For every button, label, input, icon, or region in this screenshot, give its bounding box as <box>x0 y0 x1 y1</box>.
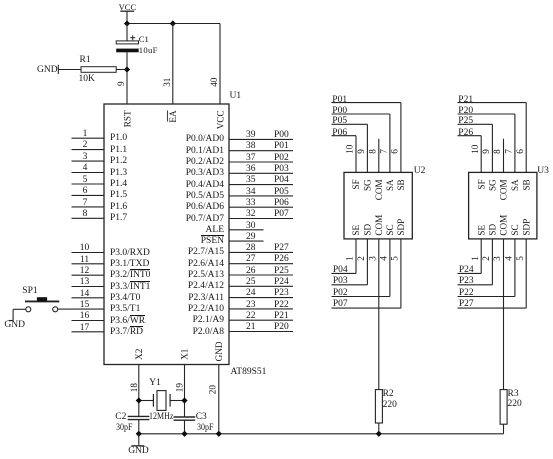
pin name P2.3/A11 <box>188 293 224 304</box>
svg-text:SD: SD <box>363 223 373 235</box>
pin number 21 <box>246 322 256 333</box>
pin 17 stub <box>72 331 105 333</box>
pin number 17 <box>78 323 91 334</box>
net label P22 <box>459 288 474 299</box>
pin name ALE <box>206 225 224 236</box>
pin name P2.6/A14 <box>188 259 224 270</box>
pin name P1.2 <box>110 156 127 167</box>
pin name P1.5 <box>110 190 127 201</box>
capacitor C2 <box>128 415 150 417</box>
pin number 15 <box>78 300 91 311</box>
svg-text:6: 6 <box>515 149 525 154</box>
pin number 10 <box>78 243 91 254</box>
pin 2 stub <box>72 149 105 151</box>
svg-text:RST: RST <box>122 110 132 127</box>
wire SP1 right to pin 15 <box>58 308 72 310</box>
pin name P3.1/TXD <box>110 259 149 270</box>
svg-text:10: 10 <box>470 144 480 154</box>
pin name PSEN <box>201 236 224 247</box>
pin number 30 <box>246 221 256 232</box>
wire U2 COM to resistor <box>378 239 380 390</box>
pin number 1 <box>81 129 90 140</box>
pin 39 stub <box>229 138 293 140</box>
net label P20 <box>274 322 289 333</box>
pin number 14 <box>78 289 91 300</box>
pin 13 stub <box>72 286 105 288</box>
pin 21 stub <box>229 331 293 333</box>
net label P07 <box>333 299 348 310</box>
label U1 <box>230 91 242 102</box>
pin name P0.5/AD5 <box>186 191 224 202</box>
svg-text:SA: SA <box>385 179 395 191</box>
switch SP1 actuator bar <box>25 300 59 302</box>
pin 38 stub <box>229 150 293 152</box>
svg-text:SA: SA <box>510 179 520 191</box>
wire net P07 to U2 <box>400 239 402 308</box>
svg-text:SF: SF <box>351 179 361 189</box>
value 10K <box>79 74 95 85</box>
net label P23 <box>274 288 289 299</box>
power symbol VCC <box>120 10 134 12</box>
svg-text:COM: COM <box>374 179 384 200</box>
net label P27 <box>274 243 289 254</box>
svg-text:3: 3 <box>492 256 502 261</box>
wire GND pin 20 <box>218 365 220 434</box>
value 220 at R2 <box>383 400 397 411</box>
svg-text:SC: SC <box>510 224 520 235</box>
pin number 25 <box>246 277 256 288</box>
net label P00 <box>274 130 289 141</box>
pin 36 stub <box>229 172 293 174</box>
pin 15 stub <box>72 308 105 310</box>
label U3 <box>537 166 549 177</box>
label Y1 <box>149 378 161 389</box>
svg-text:SC: SC <box>385 224 395 235</box>
net label P06 <box>274 198 289 209</box>
svg-text:18: 18 <box>129 383 139 393</box>
net label P02 <box>333 288 348 299</box>
net label P03 <box>274 164 289 175</box>
svg-text:9: 9 <box>116 81 126 86</box>
pin name P3.4/T0 <box>110 293 140 304</box>
net label P04 <box>333 265 348 276</box>
label R2 <box>383 389 394 400</box>
wire net P06 to U2 <box>332 135 357 137</box>
pin 25 stub <box>229 285 293 287</box>
7-segment display U2 body <box>344 172 412 239</box>
svg-text:4: 4 <box>379 256 389 261</box>
pin name P3.2/INT0 <box>110 270 150 281</box>
pin name P2.0/A8 <box>193 327 224 338</box>
resistor R2 <box>375 390 382 423</box>
wire VCC pin 40 <box>219 24 221 105</box>
wire U3 COM to resistor <box>503 239 505 390</box>
svg-text:8: 8 <box>368 149 378 154</box>
wire SP1 left to GND <box>13 308 26 310</box>
resistor R1 <box>81 67 116 73</box>
svg-text:4: 4 <box>504 256 514 261</box>
pin 28 stub <box>229 251 293 253</box>
pin 30 stub <box>229 229 264 231</box>
wire net P02 to U2 <box>389 239 391 297</box>
pin number 32 <box>246 209 256 220</box>
wire net P24 to U3 <box>480 239 482 274</box>
pin 22 stub <box>229 319 293 321</box>
pin number 38 <box>246 141 256 152</box>
svg-text:1: 1 <box>345 256 355 261</box>
pin name P3.0/RXD <box>110 248 150 259</box>
value 10uF <box>139 45 158 55</box>
svg-text:X2: X2 <box>134 348 144 360</box>
pin 33 stub <box>229 206 293 208</box>
net label P21 <box>458 95 473 106</box>
label C1 <box>139 34 149 44</box>
wire GND tick to R1 <box>58 69 81 71</box>
wire net P03 to U2 <box>366 239 368 285</box>
pin number 29 <box>246 232 256 243</box>
svg-text:SE: SE <box>351 224 361 235</box>
pin 32 stub <box>229 218 293 220</box>
label VCC <box>119 2 137 12</box>
net label P03 <box>333 276 348 287</box>
junction R2/rail <box>376 431 382 437</box>
capacitor C3 <box>174 416 196 418</box>
wire net P04 to U2 <box>355 239 357 274</box>
pin name P0.4/AD4 <box>186 180 224 191</box>
pin number 6 <box>81 186 90 197</box>
junction C3/rail <box>181 431 187 437</box>
pin name P2.4/A12 <box>188 281 224 292</box>
pin name P0.7/AD7 <box>186 214 224 225</box>
pin number 7 <box>81 198 90 209</box>
net label P22 <box>274 300 289 311</box>
svg-text:SDP: SDP <box>396 219 406 236</box>
wire C1 top lead <box>126 24 128 42</box>
pin name P1.4 <box>110 179 127 190</box>
wire X2 pin 18 <box>138 365 140 417</box>
net label P00 <box>332 106 347 117</box>
svg-text:SE: SE <box>476 224 486 235</box>
switch SP1 left contact <box>26 307 31 312</box>
svg-text:2: 2 <box>481 256 491 261</box>
pin name P2.7/A15 <box>188 247 224 258</box>
net label P20 <box>458 106 473 117</box>
net label P05 <box>332 116 347 127</box>
wire net P21 to U3 <box>458 102 527 104</box>
value 12MHz <box>149 412 178 423</box>
wire net P05 to U2 <box>332 123 368 125</box>
pin name P2.2/A10 <box>188 304 224 315</box>
pin name P1.0 <box>110 133 127 144</box>
pin 3 stub <box>72 160 105 162</box>
wire C1 bottom to RST <box>126 52 128 104</box>
capacitor C1 <box>116 41 138 44</box>
pin name P2.5/A13 <box>188 270 224 281</box>
pin 35 stub <box>229 184 293 186</box>
pin number 3 <box>81 152 90 163</box>
pin 8 stub <box>72 217 105 219</box>
pin 14 stub <box>72 297 105 299</box>
wire net P22 to U3 <box>514 239 516 297</box>
svg-text:SG: SG <box>363 179 373 191</box>
pin 12 stub <box>72 274 105 276</box>
svg-text:10: 10 <box>345 144 355 154</box>
resistor R3 <box>500 390 507 425</box>
pin name P3.7/RD <box>110 327 143 338</box>
junction X1 node <box>181 397 187 403</box>
svg-text:COM: COM <box>499 215 509 236</box>
value 220 at R3 <box>508 399 522 410</box>
pin 4 stub <box>72 172 105 174</box>
pin number 4 <box>81 163 90 174</box>
svg-text:SB: SB <box>521 179 531 190</box>
pin name P2.1/A9 <box>193 315 224 326</box>
wire EA pin 31 <box>172 24 174 105</box>
svg-text:SG: SG <box>488 179 498 191</box>
pin 34 stub <box>229 195 293 197</box>
pin 26 stub <box>229 274 293 276</box>
wire R1 to RST node <box>116 69 127 71</box>
pin number 24 <box>246 288 256 299</box>
svg-text:SD: SD <box>488 223 498 235</box>
net label P04 <box>274 175 289 186</box>
wire net P00 to U2 <box>332 113 390 115</box>
pin name P0.6/AD6 <box>186 202 224 213</box>
gnd tick at R1 left <box>57 65 59 74</box>
label GND at SP1 <box>4 320 25 331</box>
wire ground rail <box>139 433 504 435</box>
svg-text:SDP: SDP <box>521 219 531 236</box>
pin number 35 <box>246 175 256 186</box>
op IC U1 AT89S51 body <box>104 104 229 365</box>
value 30pF right <box>197 423 217 434</box>
pin name P3.6/WR <box>110 316 145 327</box>
pin number 39 <box>246 130 256 141</box>
pin 37 stub <box>229 161 293 163</box>
pin number 5 <box>81 175 90 186</box>
pin name P0.2/AD2 <box>186 157 224 168</box>
pin number 22 <box>246 311 256 322</box>
pin 23 stub <box>229 308 293 310</box>
pin number 27 <box>246 254 256 265</box>
svg-text:COM: COM <box>499 179 509 200</box>
net label P27 <box>459 299 474 310</box>
pin number 36 <box>246 164 256 175</box>
ground symbol bottom <box>138 434 140 445</box>
pin number 2 <box>81 140 90 151</box>
pin name P1.1 <box>110 145 127 156</box>
net label P23 <box>459 276 474 287</box>
net label P26 <box>458 128 473 139</box>
label U2 <box>414 166 426 177</box>
svg-text:7: 7 <box>379 149 389 154</box>
junction X2 node <box>136 397 142 403</box>
svg-text:SF: SF <box>476 179 486 189</box>
svg-text:COM: COM <box>374 215 384 236</box>
label GND left of R1 <box>37 65 58 76</box>
svg-text:GND: GND <box>214 341 224 361</box>
wire net P27 to U3 <box>525 239 527 308</box>
pin number 26 <box>246 266 256 277</box>
wire X1 pin 19 <box>184 365 186 418</box>
pin 11 stub <box>72 263 105 265</box>
svg-text:2: 2 <box>356 256 366 261</box>
svg-text:X1: X1 <box>180 348 190 360</box>
net label P24 <box>274 277 289 288</box>
wire net P25 to U3 <box>458 123 493 125</box>
pin number 13 <box>78 277 91 288</box>
net label P21 <box>274 311 289 322</box>
pin number 12 <box>78 266 91 277</box>
pin number 28 <box>246 243 256 254</box>
label R3 <box>508 389 519 400</box>
net label P05 <box>274 187 289 198</box>
pin name P0.0/AD0 <box>186 134 224 145</box>
svg-text:20: 20 <box>208 385 218 395</box>
junction at EA pin <box>170 20 176 26</box>
svg-text:9: 9 <box>356 149 366 154</box>
wire net P01 to U2 <box>332 102 401 104</box>
pin name P0.1/AD1 <box>186 146 224 157</box>
net label P26 <box>274 254 289 265</box>
label AT89S51 <box>231 367 267 378</box>
svg-text:9: 9 <box>481 149 491 154</box>
pin 6 stub <box>72 194 105 196</box>
svg-text:SB: SB <box>396 179 406 190</box>
pin 16 stub <box>72 320 105 322</box>
net label P06 <box>332 128 347 139</box>
net label P01 <box>274 141 289 152</box>
wire net P26 to U3 <box>458 135 482 137</box>
pin number 8 <box>81 209 90 220</box>
pin name P0.3/AD3 <box>186 168 224 179</box>
value 30pF left <box>116 423 136 434</box>
pin 7 stub <box>72 206 105 208</box>
net label P07 <box>274 209 289 220</box>
svg-text:5: 5 <box>390 256 400 261</box>
crystal Y1 <box>139 400 154 402</box>
svg-text:1: 1 <box>470 256 480 261</box>
wire VCC rail to EA and VCC pin <box>127 23 220 25</box>
svg-text:8: 8 <box>492 149 502 154</box>
svg-text:EA: EA <box>168 110 178 123</box>
pin name P3.3/INT1 <box>110 282 150 293</box>
net label P02 <box>274 153 289 164</box>
pin number 16 <box>78 311 91 322</box>
switch SP1 right contact <box>53 307 58 312</box>
pin number 23 <box>246 300 256 311</box>
U2 COM top stub <box>378 139 380 173</box>
7-segment display U3 body <box>469 172 537 239</box>
net label P01 <box>332 95 347 106</box>
label GND bottom <box>128 446 149 457</box>
svg-text:19: 19 <box>175 383 185 393</box>
svg-text:3: 3 <box>368 256 378 261</box>
junction pin20/rail <box>216 431 222 437</box>
pin 29 stub <box>229 240 264 242</box>
pin 5 stub <box>72 183 105 185</box>
pin number 33 <box>246 198 256 209</box>
pin 10 stub <box>72 252 105 254</box>
pin number 11 <box>78 255 91 266</box>
net label P25 <box>458 116 473 127</box>
svg-text:31: 31 <box>162 77 172 87</box>
pin number 34 <box>246 187 256 198</box>
pin name P1.6 <box>110 202 127 213</box>
pin name P1.3 <box>110 168 127 179</box>
wire net P23 to U3 <box>491 239 493 285</box>
svg-text:VCC: VCC <box>215 110 225 129</box>
junction R1/RST node <box>124 66 130 72</box>
svg-text:40: 40 <box>209 77 219 87</box>
wire net P20 to U3 <box>458 113 515 115</box>
pin 27 stub <box>229 263 293 265</box>
label R1 <box>80 55 91 66</box>
label C2 <box>115 412 126 423</box>
label C3 <box>196 412 207 423</box>
U3 COM top stub <box>503 139 505 173</box>
svg-text:6: 6 <box>390 149 400 154</box>
junction at VCC/C1/RST node <box>124 20 130 26</box>
net label P25 <box>274 266 289 277</box>
pin name P1.7 <box>110 213 127 224</box>
pin 1 stub <box>72 137 105 139</box>
net label P24 <box>459 265 474 276</box>
svg-text:5: 5 <box>515 256 525 261</box>
pin number 37 <box>246 153 256 164</box>
junction C2/rail <box>136 431 142 437</box>
pin name P3.5/T1 <box>110 304 140 315</box>
pin 24 stub <box>229 297 293 299</box>
label SP1 <box>22 286 37 297</box>
svg-text:7: 7 <box>504 149 514 154</box>
